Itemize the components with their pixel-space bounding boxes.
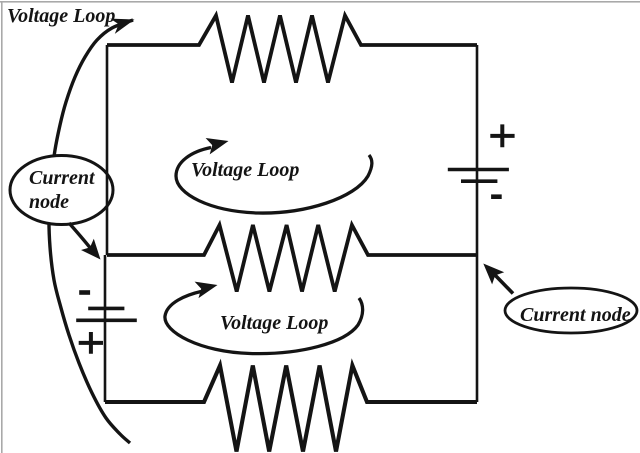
wire: right vertical: [476, 45, 479, 402]
arrow: left current node to junction: [69, 223, 91, 249]
battery B2 (left): long plate: [76, 318, 137, 322]
resistor R1 (top): [107, 16, 477, 83]
svg-text:Voltage Loop: Voltage Loop: [220, 312, 328, 334]
label: - of battery B1: [491, 194, 502, 199]
battery B1 (right): long plate: [448, 168, 509, 172]
arrowhead of inner voltage loop 2: [195, 282, 218, 299]
resistor R3 (bottom): [105, 366, 477, 452]
image border left: [1, 1, 3, 453]
label: - of battery B2: [79, 290, 90, 295]
svg-text:Current node: Current node: [520, 304, 631, 326]
label: + of battery B2: [79, 332, 103, 354]
wire: left upper vertical: [106, 45, 109, 255]
wire: left lower vertical: [104, 255, 107, 402]
svg-text:Current: Current: [29, 167, 96, 189]
resistor R2 (middle): [107, 225, 477, 292]
wire: outer voltage-loop arc (left side annotation arrow): [49, 20, 133, 443]
wire: inner voltage-loop arc 2 (lower mesh): [165, 291, 363, 354]
arrowhead of inner voltage loop 1: [206, 138, 229, 154]
svg-text:Voltage Loop: Voltage Loop: [191, 159, 299, 181]
node: Current node ellipse (left): [10, 156, 113, 225]
battery B2 (left): short plate: [88, 307, 124, 311]
arrow: right current node to junction: [494, 274, 513, 294]
svg-text:node: node: [29, 191, 69, 213]
node: Current node ellipse (right): [505, 288, 637, 333]
arrowhead of outer voltage loop: [110, 19, 134, 34]
wire: inner voltage-loop arc 1 (upper mesh): [176, 148, 372, 214]
label: + of battery B1: [490, 124, 514, 147]
battery B1 (right): short plate: [461, 179, 497, 183]
svg-text:Voltage Loop: Voltage Loop: [7, 5, 115, 27]
image border top: [0, 1, 640, 3]
